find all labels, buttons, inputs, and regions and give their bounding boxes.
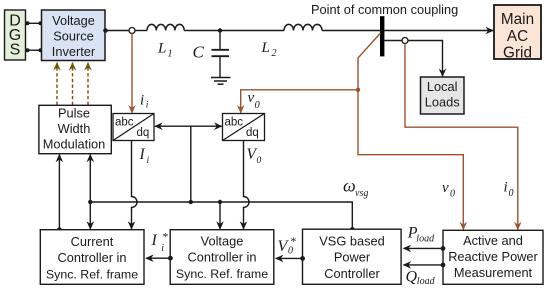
abc/dq transform block U2 <box>223 114 265 141</box>
Current Controller box <box>40 230 144 285</box>
svg-text:i: i <box>146 101 149 111</box>
Pulse Width Modulation box <box>39 105 111 153</box>
wire PCC to Main AC Grid <box>384 30 493 32</box>
svg-text:Grid: Grid <box>503 44 532 61</box>
Main AC Grid box <box>494 5 541 61</box>
ground <box>211 78 231 85</box>
svg-text:AC: AC <box>507 28 528 45</box>
node (current sensing point) open circle <box>129 28 135 34</box>
svg-text:Q: Q <box>406 268 418 285</box>
label i_0 <box>504 180 514 199</box>
wire omega bus down to current controller <box>89 202 91 229</box>
PWM gate drive dashed arrow 3 <box>87 63 89 105</box>
junction at VSG controller output <box>350 227 355 232</box>
Voltage Controller box <box>170 230 274 285</box>
svg-text:Active and: Active and <box>463 233 523 248</box>
wire DGS to inverter (lower) <box>26 48 43 52</box>
inductor L2 <box>284 24 322 30</box>
svg-text:L: L <box>261 40 270 56</box>
red wire i_0 from load node to measurement <box>405 44 518 230</box>
Active and Reactive Power Measurement box <box>443 230 543 284</box>
label v_0 (upper) <box>248 90 261 111</box>
svg-text:Controller in: Controller in <box>188 250 257 265</box>
svg-text:C: C <box>193 43 205 62</box>
svg-text:2: 2 <box>272 48 277 59</box>
DGS source box <box>5 10 26 60</box>
svg-text:L: L <box>157 41 166 57</box>
svg-text:abc: abc <box>115 117 134 129</box>
label P_load <box>407 225 435 245</box>
svg-text:Controller: Controller <box>324 266 380 281</box>
junction on omega bus at PWM branch <box>88 200 92 204</box>
label L2 <box>261 40 277 59</box>
svg-text:dq: dq <box>137 127 150 139</box>
label I_i* <box>151 232 169 255</box>
svg-text:0: 0 <box>255 100 261 111</box>
label Q_load <box>406 268 436 287</box>
VSG based Power Controller box <box>303 229 402 284</box>
svg-text:ω: ω <box>343 175 356 195</box>
wire current controller output to PWM <box>58 155 60 230</box>
wire inverter output to node <box>103 28 129 33</box>
svg-text:Source: Source <box>53 29 94 44</box>
svg-text:load: load <box>417 276 436 287</box>
wire P_load measurement to VSG <box>404 247 444 249</box>
svg-text:Controller in: Controller in <box>58 250 127 265</box>
wire I_i to current controller (with hop) <box>132 141 138 229</box>
voltage source inverter <box>42 10 106 61</box>
inductor L1 <box>147 24 184 30</box>
node (load sensing point) open circle <box>402 38 408 44</box>
wire Q_load measurement to VSG <box>404 264 444 266</box>
svg-text:Modulation: Modulation <box>43 137 106 152</box>
svg-text:Sync. Ref. frame: Sync. Ref. frame <box>176 267 268 281</box>
svg-text:Measurement: Measurement <box>454 265 533 280</box>
svg-text:Power: Power <box>334 250 371 265</box>
svg-text:i: i <box>504 180 508 196</box>
svg-text:Point of common coupling: Point of common coupling <box>311 2 458 17</box>
svg-text:Inverter: Inverter <box>52 44 96 59</box>
label I_i <box>139 146 150 166</box>
svg-text:Voltage: Voltage <box>201 234 244 249</box>
svg-text:i: i <box>140 92 144 108</box>
wire to local loads <box>408 41 443 77</box>
svg-text:I: I <box>139 146 146 163</box>
label omega_vsg <box>343 175 368 199</box>
label L1 <box>157 41 173 60</box>
label v_0 (lower) <box>442 180 455 200</box>
svg-text:Reactive Power: Reactive Power <box>448 249 538 264</box>
svg-text:VSG based: VSG based <box>319 234 384 249</box>
svg-text:Pulse: Pulse <box>58 105 90 120</box>
junction node at capacitor <box>218 28 222 32</box>
wire I_i* voltage ctrl to current ctrl <box>146 257 170 259</box>
label V_0 <box>247 146 262 166</box>
wire V_0 to voltage controller (with hop) <box>244 141 250 229</box>
svg-text:dq: dq <box>246 127 259 139</box>
svg-text:1: 1 <box>168 49 173 60</box>
wire PCC lower tap <box>384 40 402 42</box>
svg-text:Voltage: Voltage <box>52 13 95 28</box>
wire node to L1 <box>135 30 147 32</box>
svg-text:abc: abc <box>225 117 244 129</box>
wire omega bus down to voltage controller <box>219 202 221 229</box>
svg-text:0: 0 <box>257 156 262 166</box>
junction on omega bus at angle-reference branch <box>189 200 193 204</box>
svg-text:v: v <box>248 90 255 106</box>
red wire i_i sense down to abc/dq <box>131 34 133 113</box>
svg-text:*: * <box>290 236 296 248</box>
svg-text:Local: Local <box>427 79 458 94</box>
wire V_0* VSG to voltage ctrl <box>276 257 303 259</box>
junction on omega bus at voltage controller branch <box>218 200 222 204</box>
wire L1 to C junction to L2 <box>184 30 284 32</box>
wire L2 to PCC bus <box>322 30 380 32</box>
svg-text:vsg: vsg <box>355 188 368 199</box>
wire DGS to inverter (upper) <box>26 21 43 25</box>
PCC bus bar <box>380 16 384 56</box>
svg-text:I: I <box>151 232 158 249</box>
svg-text:v: v <box>442 180 449 196</box>
omega_vsg bus wire <box>90 202 352 229</box>
label i_i <box>140 92 149 110</box>
red wire v_0 from PCC to abc/dq and to measurement <box>358 33 463 230</box>
svg-text:0: 0 <box>450 189 455 200</box>
wire angle reference double arrow between transforms <box>155 125 222 127</box>
wire omega bus up to PWM <box>89 155 91 203</box>
red wire branch to abc/dq block 2 <box>241 90 358 113</box>
svg-text:*: * <box>162 232 168 244</box>
PWM gate drive dashed arrow 1 <box>56 63 58 105</box>
Local Loads box <box>421 77 465 114</box>
svg-text:S: S <box>10 42 21 59</box>
svg-text:load: load <box>416 233 435 244</box>
label V_0* <box>278 236 297 257</box>
svg-text:Width: Width <box>58 121 91 136</box>
PWM gate drive dashed arrow 2 <box>72 63 74 105</box>
junction (red) <box>356 88 360 92</box>
capacitor C <box>212 31 230 78</box>
svg-text:Current: Current <box>71 234 114 249</box>
svg-text:Sync. Ref. frame: Sync. Ref. frame <box>46 268 138 282</box>
wire angle feed from omega bus <box>190 126 192 202</box>
abc/dq transform block U1 <box>113 114 154 141</box>
svg-text:Loads: Loads <box>425 95 460 110</box>
svg-text:0: 0 <box>509 188 514 199</box>
svg-text:Main: Main <box>501 11 534 28</box>
svg-text:i: i <box>147 156 150 166</box>
svg-text:i: i <box>161 243 164 254</box>
